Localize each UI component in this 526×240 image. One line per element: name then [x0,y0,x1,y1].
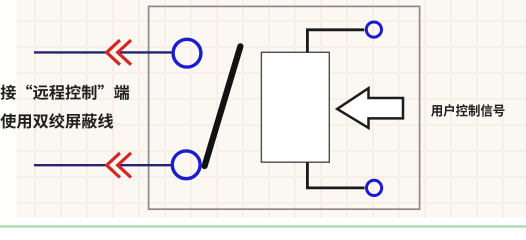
label line2: 使用双绞屏蔽线 [0,113,113,128]
terminal circle top-left [173,39,201,67]
label right: 用户控制信号 [431,104,504,117]
terminal circle top-right [366,22,381,37]
wire bottom-left navy [34,164,172,166]
terminal circle bottom-left [172,151,200,179]
wire top-left navy [34,51,173,53]
chevrons bottom wire [107,153,131,178]
switch lever [205,46,241,166]
component body rectangle [261,52,329,162]
pin wire bottom [307,162,364,188]
label line1: 接“远程控制”端 [1,84,130,99]
relay outline box [149,6,420,209]
terminal circle bottom-right [367,180,382,195]
pin wire top [307,30,364,53]
chevrons top wire [107,40,131,65]
block arrow user control signal [337,88,403,128]
